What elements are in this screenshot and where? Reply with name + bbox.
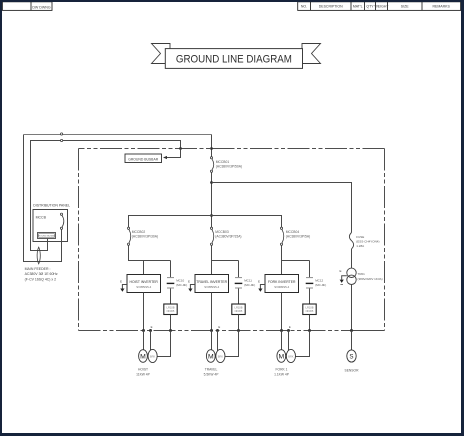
svg-text:MCCB01: MCCB01 bbox=[216, 160, 230, 164]
node: busbar tap on ground bus bbox=[179, 147, 182, 150]
op box: FORK INVERTER U3 bbox=[265, 275, 299, 293]
svg-text:MCCB03: MCCB03 bbox=[215, 230, 229, 234]
terminal circle on L2 bbox=[61, 139, 63, 141]
filter box hoist bbox=[164, 304, 177, 315]
svg-text:SENSOR: SENSOR bbox=[345, 369, 360, 373]
svg-text:(AC380V/3P/15A): (AC380V/3P/15A) bbox=[215, 235, 241, 239]
svg-text:E: E bbox=[289, 325, 291, 329]
banner main plate bbox=[165, 49, 302, 69]
wire: drop to capacitor MC11 bbox=[238, 261, 240, 278]
ground busbar box bbox=[125, 154, 162, 163]
brake circle travel bbox=[216, 349, 225, 362]
svg-text:E: E bbox=[258, 279, 260, 283]
brake circle fork bbox=[286, 349, 295, 362]
svg-text:SIZE: SIZE bbox=[401, 5, 409, 9]
svg-text:(ESS-CH4YON4): (ESS-CH4YON4) bbox=[356, 239, 379, 243]
wire: filter to ground bus bbox=[309, 315, 311, 331]
BOM header table top-right bbox=[298, 2, 461, 11]
wire: MCCB04 to branch split bbox=[282, 245, 310, 260]
svg-text:NF305: NF305 bbox=[306, 309, 314, 313]
wire: drop to fork inverter bbox=[281, 261, 283, 275]
wire: brake to filter leg bbox=[157, 331, 170, 357]
svg-text:(380V/220V 1KVA): (380V/220V 1KVA) bbox=[358, 277, 383, 281]
svg-text:REMARKS: REMARKS bbox=[433, 5, 451, 9]
node: travel inverter on bus bbox=[210, 329, 213, 332]
panel ground busbar box bbox=[38, 233, 56, 239]
fuse F1 bbox=[349, 233, 353, 249]
svg-text:NF305: NF305 bbox=[235, 309, 243, 313]
node: inverter bus tap bbox=[210, 214, 213, 217]
filter box travel bbox=[232, 304, 245, 315]
wire: drop to capacitor MC12 bbox=[309, 261, 311, 278]
svg-text:BRK: BRK bbox=[150, 354, 156, 358]
svg-text:GROUND LINE DIAGRAM: GROUND LINE DIAGRAM bbox=[176, 54, 292, 66]
wire: fork brake to filter leg bbox=[296, 331, 310, 357]
ground E at hoist inverter bbox=[120, 279, 127, 292]
wire: panel MCCB down to feeder bbox=[61, 229, 63, 261]
motor M travel bbox=[206, 350, 215, 363]
banner left tail bbox=[152, 44, 171, 64]
motor M hoist bbox=[139, 350, 148, 363]
wire: bus to travel motor bbox=[211, 331, 213, 350]
svg-text:1.1KW 4P: 1.1KW 4P bbox=[274, 372, 290, 376]
svg-text:S: S bbox=[349, 353, 353, 360]
wire: drop to travel inverter bbox=[211, 261, 213, 275]
svg-text:SV008iS5-4: SV008iS5-4 bbox=[274, 285, 289, 289]
svg-text:5.5KW 4P: 5.5KW 4P bbox=[204, 372, 220, 376]
svg-text:(AC380V/3P/50A): (AC380V/3P/50A) bbox=[216, 165, 242, 169]
CIRCUIT bbox=[24, 135, 212, 262]
ground bus loop (dash-dot) bbox=[79, 149, 385, 331]
wire: hoist inverter to ground bus bbox=[143, 293, 145, 331]
svg-text:M: M bbox=[140, 354, 146, 361]
ground bus right segment bbox=[384, 149, 386, 331]
svg-text:MAT'L: MAT'L bbox=[353, 5, 363, 9]
wire: filter to ground bus bbox=[238, 315, 240, 331]
wire: bus solid segment TR to corner bbox=[352, 330, 385, 332]
svg-text:TRAVEL: TRAVEL bbox=[205, 368, 218, 372]
wire: ground top line L2 bbox=[31, 141, 181, 251]
wire: bus to sensor bbox=[351, 331, 353, 351]
svg-text:(F-CV 16SQ 4C) x 2: (F-CV 16SQ 4C) x 2 bbox=[25, 278, 57, 282]
wire: MC11 to filter bbox=[238, 289, 240, 305]
svg-text:(AC380V/3P/5A): (AC380V/3P/5A) bbox=[286, 235, 310, 239]
svg-text:GROUND BUSBAR: GROUND BUSBAR bbox=[37, 235, 57, 238]
terminal circle on L1 bbox=[61, 133, 63, 135]
capacitor MC12 bbox=[306, 278, 314, 288]
wire: MCCB03 to branch split bbox=[212, 245, 239, 260]
svg-text:DESCRIPTION: DESCRIPTION bbox=[319, 5, 343, 9]
wire: travel inverter to ground bus bbox=[211, 293, 213, 331]
svg-text:TRAVEL INVERTER: TRAVEL INVERTER bbox=[196, 280, 227, 284]
svg-text:DW DWNG: DW DWNG bbox=[32, 5, 51, 9]
svg-text:11KW 4P: 11KW 4P bbox=[136, 372, 150, 376]
svg-text:HOIST INVERTER: HOIST INVERTER bbox=[130, 280, 159, 284]
breaker MCCB04 bbox=[280, 227, 283, 245]
ground E at fork inverter bbox=[258, 279, 265, 292]
svg-text:E: E bbox=[151, 325, 153, 329]
ground bus bottom segment bbox=[79, 330, 385, 332]
node: travel brake on bus bbox=[216, 329, 219, 332]
wire: main power top line L1 bbox=[24, 135, 62, 262]
wire: bus to fork motor bbox=[281, 331, 283, 350]
node: feeder crosses ground bus bbox=[210, 147, 213, 150]
svg-text:BRK: BRK bbox=[218, 354, 224, 358]
ground E at travel inverter bbox=[188, 279, 195, 292]
breaker MCCB (panel) bbox=[60, 213, 63, 229]
svg-text:FUSE: FUSE bbox=[356, 235, 364, 239]
svg-text:QTY: QTY bbox=[366, 5, 374, 9]
svg-text:WEIGHT: WEIGHT bbox=[375, 5, 390, 9]
svg-text:MC12: MC12 bbox=[315, 279, 323, 283]
arrowhead into busbar box bbox=[163, 156, 167, 159]
wire: inverter supply bus bbox=[129, 216, 282, 228]
wire: bus to travel brake bbox=[217, 331, 219, 351]
wire: MCCB02 to branch split bbox=[129, 245, 171, 260]
ground bus top segment bbox=[79, 148, 385, 150]
svg-text:M: M bbox=[278, 354, 284, 361]
svg-text:AC380V 3Ø 1E 60Hz: AC380V 3Ø 1E 60Hz bbox=[25, 272, 58, 276]
svg-text:(MC-9b): (MC-9b) bbox=[176, 283, 187, 287]
svg-text:BRK: BRK bbox=[288, 354, 294, 358]
svg-text:GROUND BUSBAR: GROUND BUSBAR bbox=[128, 158, 159, 162]
svg-text:(MC-9b): (MC-9b) bbox=[244, 283, 255, 287]
wire: bus to hoist motor bbox=[143, 331, 145, 350]
wire: feed to fuse branch bbox=[212, 183, 352, 233]
svg-text:MCCB04: MCCB04 bbox=[286, 230, 300, 234]
svg-text:(AC380V/3P/30A): (AC380V/3P/30A) bbox=[132, 235, 158, 239]
capacitor MC11 bbox=[235, 278, 243, 288]
svg-text:DISTRIBUTION PANEL: DISTRIBUTION PANEL bbox=[33, 203, 70, 207]
svg-text:E: E bbox=[188, 279, 190, 283]
node: hoist brake on bus bbox=[149, 329, 152, 332]
svg-text:MAIN FEEDER :: MAIN FEEDER : bbox=[25, 267, 51, 271]
node: TR01 leg on bus bbox=[350, 329, 353, 332]
svg-text:M: M bbox=[208, 354, 214, 361]
capacitor MC10 bbox=[167, 278, 175, 288]
wire: drop to hoist inverter bbox=[143, 261, 145, 275]
svg-text:SV055iS5-4: SV055iS5-4 bbox=[136, 285, 151, 289]
breaker MCCB02 bbox=[127, 227, 130, 245]
svg-text:FORK 1: FORK 1 bbox=[276, 368, 288, 372]
title block table top-left bbox=[2, 2, 52, 11]
svg-text:MC11: MC11 bbox=[244, 279, 252, 283]
motor M fork bbox=[277, 350, 286, 363]
svg-text:SV055iS5-4: SV055iS5-4 bbox=[204, 285, 219, 289]
node: tap to fuse branch bbox=[210, 181, 213, 184]
svg-text:E: E bbox=[218, 325, 220, 329]
wire: drop to capacitor MC10 bbox=[170, 261, 172, 278]
ground E at TR01 bbox=[339, 269, 346, 285]
title ribbon banner bbox=[152, 44, 321, 69]
node: fork filter on bus bbox=[308, 329, 311, 332]
wire: bus to fork brake bbox=[288, 331, 290, 351]
node: fork brake on bus bbox=[287, 329, 290, 332]
svg-text:NO.: NO. bbox=[301, 5, 307, 9]
node: hoist filter on bus bbox=[169, 329, 172, 332]
ground bus left segment bbox=[78, 149, 80, 331]
transformer TR01 bbox=[347, 268, 356, 284]
wire: MC10 to filter bbox=[170, 289, 172, 305]
wire: busbar box to feeder bbox=[47, 239, 49, 251]
svg-text:(MC-9b): (MC-9b) bbox=[315, 283, 326, 287]
op box: HOIST INVERTER U1 bbox=[127, 275, 161, 293]
op box: TRAVEL INVERTER U2 bbox=[195, 275, 229, 293]
breaker MCCB03 bbox=[210, 227, 213, 245]
wire: fork inverter to ground bus bbox=[281, 293, 283, 331]
filter box fork bbox=[303, 304, 316, 315]
node: travel filter on bus bbox=[237, 329, 240, 332]
wire: MC12 to filter bbox=[309, 289, 311, 305]
svg-text:MCCB02: MCCB02 bbox=[132, 230, 146, 234]
node: fork inverter on bus bbox=[280, 329, 283, 332]
wire: TR01 to ground bus bbox=[351, 285, 353, 331]
wire: filter to ground bus bbox=[170, 315, 172, 331]
panel box bbox=[33, 210, 68, 242]
banner right tail bbox=[302, 44, 321, 64]
sensor S bbox=[347, 350, 356, 362]
wire: travel brake to filter leg bbox=[225, 331, 238, 357]
wire: bus to hoist brake bbox=[150, 331, 152, 351]
cable bundle lens symbol bbox=[37, 247, 40, 264]
wire: MCCB01 output down bbox=[211, 172, 213, 227]
svg-text:E: E bbox=[339, 269, 341, 273]
svg-text:MC10: MC10 bbox=[176, 279, 184, 283]
svg-text:FORK INVERTER: FORK INVERTER bbox=[268, 280, 296, 284]
svg-text:1.28A: 1.28A bbox=[356, 244, 364, 248]
svg-text:MCCB: MCCB bbox=[36, 216, 47, 220]
wire: fuse to transformer bbox=[351, 249, 353, 268]
breaker MCCB01 bbox=[210, 157, 213, 173]
wire: tap to ground busbar box bbox=[164, 149, 181, 158]
svg-text:NF305: NF305 bbox=[167, 309, 175, 313]
sheet border frame (navy) bbox=[0, 0, 464, 2]
node: hoist inverter on bus bbox=[142, 329, 145, 332]
svg-text:E: E bbox=[120, 279, 122, 283]
svg-text:HOIST: HOIST bbox=[138, 368, 148, 372]
svg-text:TR01: TR01 bbox=[358, 272, 366, 276]
brake circle hoist bbox=[148, 349, 157, 362]
